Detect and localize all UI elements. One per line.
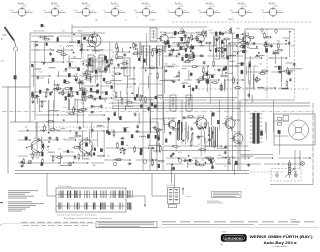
wire (vertical) <box>109 42 111 73</box>
capacitor C35 (electrolytic) <box>89 58 91 61</box>
svg-text:1ib: 1ib <box>11 10 13 12</box>
inductor L109 <box>114 160 121 161</box>
capacitor C562 (electrolytic) <box>193 55 195 58</box>
resistor R48 <box>152 51 154 55</box>
inductor L948 <box>48 152 55 153</box>
resistor R615 <box>233 78 235 82</box>
resistor R1012 <box>134 147 136 151</box>
resistor R44 <box>150 67 154 69</box>
wire (vertical) <box>279 131 281 155</box>
inductor L1037 <box>139 136 146 137</box>
wire (vertical) <box>35 122 37 138</box>
capacitor C411 (electrolytic) <box>136 94 138 97</box>
svg-text:0,5: 0,5 <box>111 129 114 131</box>
wire (supply drop h) <box>152 195 168 197</box>
svg-text:4,7k: 4,7k <box>176 57 180 59</box>
svg-text:70: 70 <box>50 50 52 52</box>
svg-text:AC151: AC151 <box>175 2 182 5</box>
wire (circuit row) <box>114 67 158 68</box>
capacitor C128 <box>65 68 68 70</box>
IF transformer Fi8 <box>99 55 105 71</box>
wire (vertical) <box>181 100 183 133</box>
wire (vertical) <box>281 56 283 87</box>
resistor R1314 <box>189 59 193 61</box>
svg-text:3,3k: 3,3k <box>109 103 113 105</box>
inductor L147 <box>91 91 98 92</box>
capacitor C533 (electrolytic) <box>224 48 226 51</box>
resistor R1132 <box>174 146 178 148</box>
svg-text:0,22: 0,22 <box>39 72 43 74</box>
svg-text:2,2k: 2,2k <box>63 71 67 73</box>
resistor R102 <box>121 149 125 151</box>
transistor pinout view AC153 (T8) <box>231 2 253 19</box>
svg-text:AC117: AC117 <box>269 2 276 5</box>
wire <box>107 117 109 130</box>
capacitor C448 (electrolytic) <box>143 59 145 63</box>
resistor R955 <box>74 147 78 149</box>
capacitor C1025 (electrolytic) <box>158 137 160 141</box>
resistor R317 <box>86 64 90 66</box>
resistor R425 <box>118 57 122 59</box>
capacitor C116 (electrolytic) <box>64 80 66 84</box>
svg-text:1ib: 1ib <box>262 10 264 12</box>
svg-text:6,8k: 6,8k <box>205 146 209 148</box>
resistor R1130 <box>191 135 193 139</box>
inductor L88 <box>257 87 264 88</box>
capacitor C537 (electrolytic) <box>167 41 170 45</box>
node junction <box>63 120 64 121</box>
svg-text:10k: 10k <box>89 81 92 83</box>
resistor R571 <box>205 32 207 36</box>
svg-text:10k: 10k <box>264 90 267 92</box>
capacitor C429 (electrolytic) <box>140 105 142 108</box>
wire <box>147 76 149 89</box>
resistor R176 <box>81 88 85 90</box>
capacitor C557 (electrolytic) <box>168 45 170 48</box>
capacitor C1217 <box>224 151 227 153</box>
svg-text:1k: 1k <box>224 165 226 167</box>
resistor R1029 <box>156 129 160 131</box>
wire (left rail A) <box>7 87 9 174</box>
resistor R210 <box>56 88 60 90</box>
node junction <box>192 133 193 134</box>
capacitor C1114 (electrolytic) <box>165 139 167 143</box>
wire (circuit row) <box>114 51 152 52</box>
lamp symbol (left row) 1 <box>28 160 32 164</box>
capacitor C951 (electrolytic) <box>25 137 28 140</box>
resistor R554 <box>241 42 245 44</box>
wire <box>90 71 92 83</box>
inductor L1015 <box>156 130 163 131</box>
parts strip heading <box>64 217 112 220</box>
wire (vertical) <box>139 42 141 62</box>
node junction <box>183 140 184 141</box>
capacitor C1410 <box>134 113 137 115</box>
wire (tuner inner rail) <box>35 41 160 43</box>
wire <box>61 128 65 130</box>
capacitor C69 (electrolytic) <box>183 85 185 88</box>
resistor R331 <box>86 78 90 80</box>
capacitor C113 (electrolytic) <box>178 120 180 124</box>
wire (vertical) <box>162 66 164 98</box>
wire <box>148 144 161 146</box>
resistor R14 <box>58 51 62 53</box>
wire (circuit row) <box>164 65 237 66</box>
capacitor C61 (electrolytic) <box>243 50 245 53</box>
inductor L173 <box>69 42 76 43</box>
wire (vertical) <box>77 100 79 124</box>
capacitor C954 <box>56 137 59 139</box>
svg-text:1ib: 1ib <box>168 10 170 12</box>
wire (supply bus 1) <box>112 102 310 104</box>
wire (circuit row) <box>36 114 105 115</box>
svg-text:30p: 30p <box>247 47 250 49</box>
svg-text:( u. Folgeversionen ): ( u. Folgeversionen ) <box>272 245 288 248</box>
capacitor C1224 (electrolytic) <box>235 161 237 165</box>
capacitor C548 <box>199 41 201 44</box>
capacitor Cif3 (electrolytic) <box>90 88 92 91</box>
inductor L564 <box>187 48 194 49</box>
capacitor C234 <box>32 100 35 102</box>
resistor R123 <box>195 160 197 164</box>
resistor R525 <box>206 42 210 44</box>
svg-text:co: co <box>152 10 154 12</box>
capacitor C223 (electrolytic) <box>82 91 84 95</box>
svg-text:29301-001.01: 29301-001.01 <box>290 222 299 224</box>
IF transformer Fi1 <box>144 46 150 68</box>
capacitor C652 <box>198 80 201 82</box>
capacitor C168 <box>80 80 83 82</box>
capacitor C1139 (electrolytic) <box>217 120 219 124</box>
svg-text:2,2k: 2,2k <box>160 99 164 101</box>
svg-text:2-40: 2-40 <box>23 6 26 8</box>
resistor R412 <box>121 99 123 103</box>
resistor R746 <box>265 45 269 47</box>
wire (AF ground rail) <box>15 170 249 172</box>
inductor L111 <box>234 120 241 121</box>
capacitor C1011 (electrolytic) <box>131 135 133 139</box>
resistor R742 <box>267 36 271 38</box>
svg-text:GRUNDIG: GRUNDIG <box>225 237 244 241</box>
svg-text:10k: 10k <box>78 142 81 144</box>
capacitor C1312 (electrolytic) <box>192 46 195 49</box>
capacitor C136 (electrolytic) <box>180 47 182 50</box>
legend text block <box>8 190 44 211</box>
wire (circuit row) <box>164 55 243 56</box>
capacitor C77 <box>252 42 254 45</box>
resistor R21 <box>41 102 43 106</box>
node junction <box>72 95 73 96</box>
capacitor C79 <box>265 42 268 44</box>
wire (output verticals B) <box>244 100 246 160</box>
capacitor C23 (electrolytic) <box>70 87 72 90</box>
wire <box>169 37 177 39</box>
transistor T8 AC151 <box>28 138 44 156</box>
capacitor C1135 <box>183 117 185 120</box>
wire (bottom right) <box>270 184 313 186</box>
svg-text:Auto-Boy 204 a: Auto-Boy 204 a <box>264 241 297 245</box>
capacitor C120 <box>35 44 37 47</box>
inductor L944 <box>83 159 90 160</box>
svg-text:2,2k: 2,2k <box>63 107 67 109</box>
resistor R230 <box>81 109 85 111</box>
resistor R927 <box>76 135 80 137</box>
capacitor C725 (electrolytic) <box>288 72 290 75</box>
inductor L542 <box>172 43 179 44</box>
wire <box>69 99 71 111</box>
resistor R417 <box>115 93 117 97</box>
resistor R925 <box>32 154 34 158</box>
capacitor C920 <box>91 129 94 131</box>
wire (supply bus 0) <box>113 97 237 99</box>
resistor R728 <box>249 62 251 66</box>
resistor R552 <box>191 46 193 50</box>
capacitor C1033 (electrolytic) <box>158 164 160 168</box>
capacitor C613 (electrolytic) <box>192 88 194 91</box>
inductor L574 <box>233 51 240 52</box>
svg-text:2,2k: 2,2k <box>87 65 91 67</box>
wire (circuit row) <box>106 147 149 148</box>
resistor R1230 <box>206 157 210 159</box>
wire (circuit row) <box>106 159 157 160</box>
capacitor C936 (electrolytic) <box>67 150 69 153</box>
wire (dashed divider) <box>266 29 268 100</box>
GRUNDIG logo <box>221 234 247 241</box>
resistor R434 <box>116 55 118 59</box>
wire <box>233 163 235 175</box>
capacitor C617 (electrolytic) <box>207 80 209 83</box>
svg-text:22k: 22k <box>164 44 167 46</box>
resistor R1028 <box>117 159 121 161</box>
svg-text:2,2k: 2,2k <box>98 126 102 128</box>
inductor L626 <box>167 66 174 67</box>
wire <box>179 36 192 38</box>
svg-text:AC153: AC153 <box>206 2 213 5</box>
wire (AM-FM bus 1) <box>227 44 229 171</box>
node junction <box>142 95 143 96</box>
inductor L211 <box>40 101 47 102</box>
transistor T9 AC153 <box>76 137 93 156</box>
node junction <box>188 86 189 87</box>
resistor R566 <box>179 32 183 34</box>
capacitor C635 (electrolytic) <box>206 73 208 76</box>
transistor pinout view AC117 (T9) <box>262 2 284 19</box>
wire <box>253 74 255 89</box>
capacitor C522 <box>183 31 186 33</box>
capacitor C1223 <box>247 164 250 166</box>
svg-text:86,7-109 MHz: 86,7-109 MHz <box>34 31 45 33</box>
wire <box>151 148 153 162</box>
svg-text:4,7k: 4,7k <box>129 87 133 89</box>
svg-text:22k: 22k <box>139 148 142 150</box>
transistor pinout view AC151r (T5) <box>135 2 157 19</box>
wire (tuner inner vert) <box>34 42 36 120</box>
wire <box>229 61 235 63</box>
wire (vertical) <box>264 122 266 133</box>
resistor R722 <box>278 49 282 51</box>
inductor L59 <box>229 55 236 56</box>
wire <box>230 42 241 44</box>
node junction <box>210 50 211 51</box>
svg-text:2-40: 2-40 <box>211 6 214 8</box>
wire (vertical) <box>138 42 140 61</box>
resistor R431 <box>127 101 131 103</box>
node junction <box>256 55 257 56</box>
wire (dashed AGC line) <box>35 126 110 128</box>
resistor R183 <box>65 88 69 90</box>
wire <box>63 47 65 61</box>
wire (vertical bus 4) <box>162 45 164 171</box>
wire (vertical) <box>253 66 255 89</box>
svg-text:500: 500 <box>92 165 95 167</box>
capacitor C135 (electrolytic) <box>182 57 184 61</box>
wire <box>283 70 294 72</box>
wire <box>187 160 189 168</box>
wire <box>110 80 122 82</box>
node junction <box>145 70 146 71</box>
node junction <box>185 51 186 52</box>
wire (circuit row) <box>246 57 287 58</box>
capacitor C547 (electrolytic) <box>236 34 239 37</box>
inductor L45 <box>126 106 133 107</box>
capacitor C576 <box>177 43 180 45</box>
wire (right rail) <box>312 103 314 178</box>
wire <box>71 58 82 60</box>
resistor R723 <box>249 37 253 39</box>
capacitor C926 <box>75 132 78 134</box>
svg-text:460kHz: 460kHz <box>228 19 234 21</box>
capacitor Cif1 (electrolytic) <box>95 70 97 73</box>
resistor R534 <box>164 47 166 51</box>
svg-text:AF106: AF106 <box>160 31 167 34</box>
resistor R52 <box>225 38 229 40</box>
node junction <box>237 82 238 83</box>
capacitor C131 (electrolytic) <box>52 58 54 62</box>
resistor R931 <box>78 155 80 159</box>
wire (vertical) <box>157 122 159 148</box>
wire (ant wire) <box>2 86 30 88</box>
resistor R731 <box>278 44 280 48</box>
capacitor C232 <box>91 111 93 114</box>
capacitor C123 <box>36 95 38 98</box>
pushbutton switch bank S1 (rear view) <box>56 188 132 212</box>
svg-text:2,2k: 2,2k <box>74 74 78 76</box>
wire <box>190 85 192 101</box>
capacitor C513 (electrolytic) <box>219 32 221 35</box>
wire (AM-FM bus 3) <box>237 33 239 171</box>
inductor L518 <box>214 38 221 39</box>
wire <box>168 49 180 51</box>
wire (to switch bank h) <box>47 195 56 197</box>
capacitor C524 (electrolytic) <box>185 54 187 58</box>
svg-text:M U K L TA Klang: M U K L TA Klang <box>58 185 71 188</box>
wire (circuit row) <box>31 49 103 50</box>
svg-text:10k: 10k <box>107 156 110 158</box>
resistor R111 <box>40 36 44 38</box>
capacitor C1316 <box>192 52 195 54</box>
battery B1 9V <box>168 187 184 208</box>
capacitor C315 <box>96 91 99 93</box>
wire (left rail B) <box>15 52 17 122</box>
wire <box>122 48 124 53</box>
inductor L734 <box>274 66 281 67</box>
capacitor C952 <box>74 156 77 158</box>
capacitor C642 (electrolytic) <box>241 63 244 66</box>
output transformer Tr2 <box>249 113 262 144</box>
wire (vertical bus 3) <box>156 45 158 171</box>
inductor L333 <box>93 51 100 52</box>
inductor L716 <box>278 71 285 72</box>
resistor R130 <box>44 38 48 40</box>
resistor R532 <box>171 50 173 54</box>
wire (circuit row) <box>164 117 199 118</box>
svg-text:486: 486 <box>95 20 98 22</box>
resistor R1124 <box>204 123 206 127</box>
wire (circuit row) <box>84 59 113 60</box>
inductor L96 <box>30 154 37 155</box>
capacitor C126 <box>208 159 210 162</box>
wire <box>171 168 173 183</box>
wire <box>44 35 54 37</box>
wire <box>200 45 205 47</box>
inductor L153 <box>49 67 56 68</box>
wire (vertical) <box>90 122 92 138</box>
oscillator coil L5 <box>88 31 101 50</box>
svg-text:47: 47 <box>48 82 50 84</box>
capacitor C528 <box>215 39 217 42</box>
svg-text:co: co <box>92 10 94 12</box>
wire <box>182 67 187 69</box>
svg-text:6x1,5V=9V: 6x1,5V=9V <box>166 185 175 187</box>
node junction <box>205 127 206 128</box>
svg-text:0,22: 0,22 <box>40 106 44 108</box>
capacitor C92 (electrolytic) <box>100 149 102 152</box>
inductor L11 <box>67 46 74 47</box>
resistor R42 <box>133 43 135 47</box>
resistor R76 <box>264 33 266 37</box>
inductor L1039 <box>153 151 160 152</box>
wire (vertical) <box>146 33 148 65</box>
capacitor C127 <box>170 155 173 157</box>
svg-text:2-40: 2-40 <box>147 6 150 8</box>
node junction <box>205 162 206 163</box>
capacitor C38 (electrolytic) <box>111 86 113 89</box>
wire (tuner box left) <box>29 33 31 122</box>
capacitor C65 <box>203 61 206 63</box>
resistor R1044 <box>152 161 154 165</box>
IF transformer Fi9 <box>170 95 176 111</box>
resistor R134 <box>181 48 185 50</box>
wire <box>97 155 104 157</box>
capacitor C514 (electrolytic) <box>174 31 176 35</box>
capacitor C74 <box>278 71 280 74</box>
resistor R28 <box>88 96 92 98</box>
capacitor C170 (electrolytic) <box>77 68 80 71</box>
transistor T11 AC151 <box>193 115 207 131</box>
wire (circuit row) <box>246 87 288 88</box>
capacitor C114 <box>198 127 200 130</box>
wire (vertical) <box>206 66 208 92</box>
capacitor C743 (electrolytic) <box>249 64 251 67</box>
wire (vertical) <box>163 100 165 126</box>
svg-text:AF106: AF106 <box>51 2 58 5</box>
wire (AF supply rail) <box>15 173 249 175</box>
node junction <box>229 43 230 44</box>
capacitor C1024 (electrolytic) <box>140 152 142 155</box>
capacitor C721 (electrolytic) <box>265 48 267 52</box>
capacitor C449 (electrolytic) <box>154 105 157 108</box>
wire <box>69 151 74 153</box>
